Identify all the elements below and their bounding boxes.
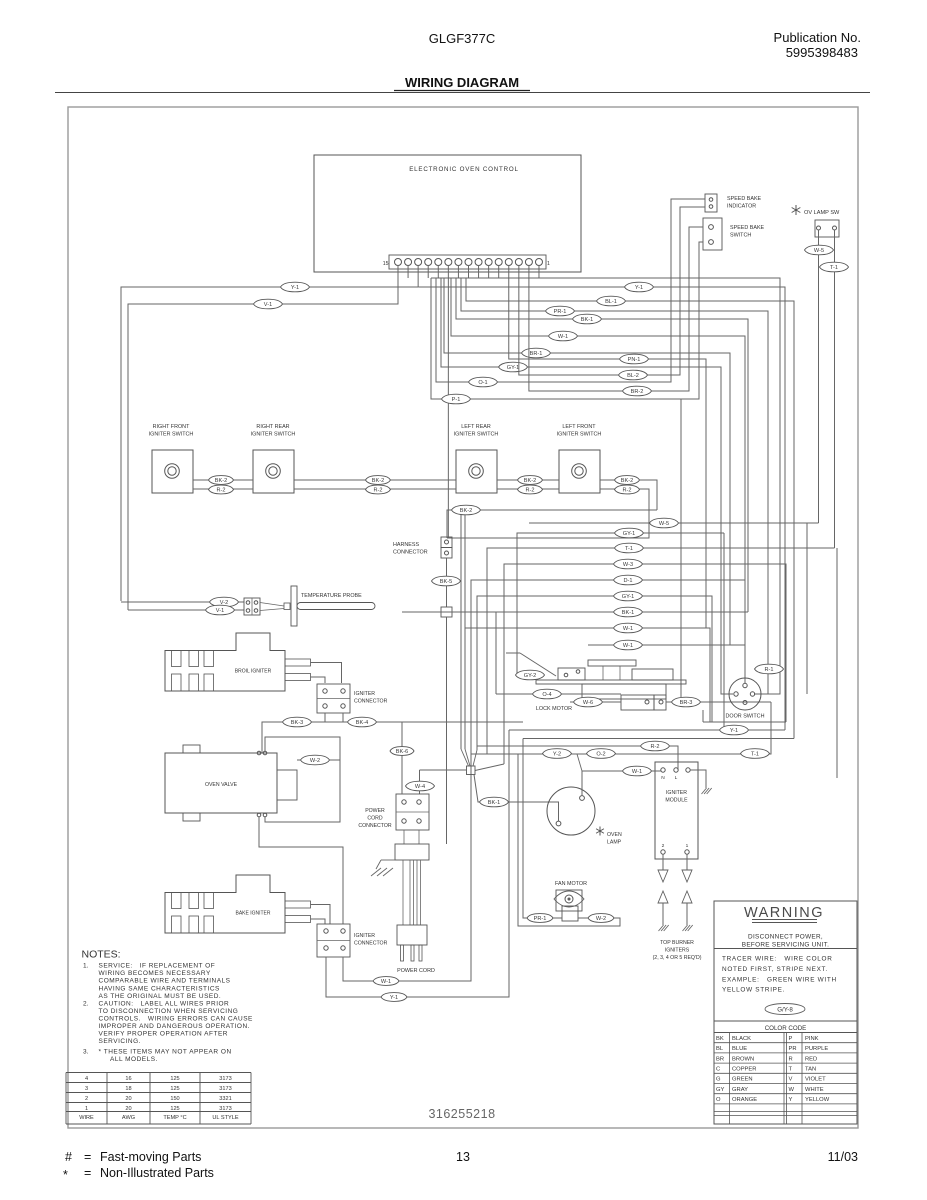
svg-text:DISCONNECT POWER,: DISCONNECT POWER,: [748, 934, 823, 941]
wire from igniter module pin 2: [662, 854, 664, 870]
oven lamp: [547, 787, 595, 835]
svg-text:3: 3: [85, 1086, 88, 1092]
wire label Y-1: [281, 282, 310, 292]
svg-text:11/03: 11/03: [828, 1150, 858, 1164]
wire label W-2 fan: [588, 914, 614, 923]
svg-text:BR-3: BR-3: [680, 700, 693, 706]
oven valve right housing: [277, 770, 297, 800]
svg-text:V-1: V-1: [264, 302, 272, 308]
svg-text:CORD: CORD: [367, 816, 383, 822]
wire label R-2 d: [615, 485, 640, 494]
oven lamp switch OV LAMP SW: [795, 205, 797, 215]
wire from oven valve bottom to bake igniter connector: [259, 817, 343, 924]
svg-text:BEFORE SERVICING UNIT.: BEFORE SERVICING UNIT.: [742, 942, 829, 949]
svg-text:Y-1: Y-1: [730, 728, 738, 734]
wire label BK-5: [432, 576, 461, 586]
wire Y-1 right run: [417, 265, 419, 287]
svg-text:15: 15: [383, 261, 389, 267]
wire BL-1: [466, 278, 794, 739]
wire label PR-1 fan: [527, 914, 553, 923]
wire label Y-1 very bottom: [381, 993, 407, 1002]
wire PR-1: [461, 278, 768, 694]
wire V-1 to temperature probe: [128, 265, 398, 610]
power cord wires: [402, 860, 404, 925]
EOC terminal pin 14: [405, 259, 412, 266]
svg-text:POWER CORD: POWER CORD: [397, 968, 435, 974]
bake igniter: [165, 875, 285, 933]
svg-text:IGNITERS: IGNITERS: [665, 948, 690, 954]
wire label Y-1 right: [625, 282, 654, 292]
svg-text:W-1: W-1: [632, 769, 642, 775]
top burner igniter arrow 1: [682, 870, 692, 882]
wire label O-2 bottom: [587, 749, 616, 759]
svg-text:G: G: [716, 1077, 721, 1083]
svg-text:P-1: P-1: [452, 397, 461, 403]
ground symbol burner 2: [659, 925, 664, 931]
svg-text:OV LAMP SW: OV LAMP SW: [804, 210, 840, 216]
lock motor assembly: [588, 660, 636, 666]
wire W-1: [451, 278, 745, 683]
bake igniter terminal prongs: [285, 901, 311, 908]
wire from igniter module to ground: [690, 770, 706, 788]
svg-text:1: 1: [547, 261, 550, 267]
svg-text:3173: 3173: [219, 1086, 231, 1092]
svg-text:W-5: W-5: [659, 521, 669, 527]
svg-text:YELLOW: YELLOW: [805, 1097, 830, 1103]
svg-text:18: 18: [125, 1086, 131, 1092]
svg-text:BK-1: BK-1: [581, 317, 593, 323]
wire label BR-3: [672, 697, 701, 707]
svg-text:T-1: T-1: [625, 546, 633, 552]
svg-text:RIGHT FRONT: RIGHT FRONT: [153, 424, 190, 430]
wire BK-1 middle run: [402, 611, 748, 613]
wire W-1 to igniter module N: [582, 770, 661, 772]
svg-text:T-1: T-1: [751, 752, 759, 758]
svg-text:T-1: T-1: [830, 265, 838, 271]
wire GY-1: [441, 278, 733, 694]
svg-text:SPEED BAKE: SPEED BAKE: [727, 196, 762, 202]
EOC terminal pin 8: [465, 259, 472, 266]
svg-text:IGNITER SWITCH: IGNITER SWITCH: [251, 432, 296, 438]
svg-text:BLUE: BLUE: [732, 1046, 747, 1052]
EOC terminal pin 2: [525, 259, 532, 266]
svg-text:RED: RED: [805, 1056, 817, 1062]
svg-text:ORANGE: ORANGE: [732, 1097, 757, 1103]
wire label BK-6: [390, 747, 414, 756]
wire P-1 continuation to lock motor area: [680, 399, 682, 702]
svg-text:BK-2: BK-2: [372, 478, 384, 484]
wire label BK-4: [348, 717, 377, 727]
wire label BK-2 e: [452, 505, 481, 515]
wire from oven lamp pin up to W-1 run: [581, 771, 583, 796]
wire label BL-2: [619, 370, 648, 380]
svg-text:W-1: W-1: [623, 626, 633, 632]
svg-text:W-1: W-1: [381, 979, 391, 985]
svg-text:3.: 3.: [83, 1049, 89, 1056]
wire label W-6: [574, 697, 603, 707]
wire label BL-1: [597, 296, 626, 306]
wire W (top) to door switch: [539, 265, 780, 694]
wire label W-5 middle: [650, 518, 679, 528]
wire label V-2 probe: [210, 597, 239, 607]
svg-text:IGNITER: IGNITER: [666, 790, 687, 796]
svg-text:R-2: R-2: [650, 744, 659, 750]
wire O-1 to speed bake indicator: [436, 199, 705, 382]
wire label PR-1: [546, 306, 575, 316]
svg-text:LEFT REAR: LEFT REAR: [461, 424, 491, 430]
wire W-5 drop: [806, 523, 808, 694]
wire from junction down to power cord block: [446, 617, 448, 844]
header rule: [55, 92, 870, 94]
wire GY-1 middle run: [517, 533, 724, 675]
wire W-2 from fan motor: [518, 754, 620, 926]
svg-text:GRAY: GRAY: [732, 1087, 748, 1093]
wire GY-1 middle right drop: [723, 533, 725, 730]
svg-text:BK-3: BK-3: [291, 720, 303, 726]
wire BR-2 to speed bake switch: [529, 227, 703, 391]
svg-text:V-1: V-1: [216, 608, 224, 614]
svg-text:*: *: [63, 1168, 68, 1182]
EOC terminal pin 11: [435, 259, 442, 266]
wire label BK-1: [573, 314, 602, 324]
wire label R-2 c: [518, 485, 543, 494]
svg-text:PR-1: PR-1: [534, 916, 547, 922]
svg-text:PURPLE: PURPLE: [805, 1046, 828, 1052]
wire T-1 drop: [836, 548, 838, 778]
svg-text:PN-1: PN-1: [628, 357, 641, 363]
wire T-1 bottom run: [471, 702, 771, 754]
svg-text:125: 125: [170, 1086, 179, 1092]
wire label BK-1 lamp: [480, 797, 509, 807]
wire label BR-1: [522, 348, 551, 358]
wire W-1 lock motor run: [588, 644, 745, 646]
wire from OV LAMP SW pin 1: [818, 230, 820, 245]
wire label BK-1 middle: [614, 607, 643, 617]
wire loop around oven valve: [265, 737, 340, 822]
svg-text:Non-Illustrated Parts: Non-Illustrated Parts: [100, 1166, 214, 1180]
oven valve: [165, 753, 277, 813]
warning box: [714, 901, 857, 1124]
svg-text:=: =: [84, 1166, 91, 1180]
svg-text:VIOLET: VIOLET: [805, 1077, 826, 1083]
svg-text:TRACER WIRE: WIRE COLOR: TRACER WIRE: WIRE COLOR: [722, 956, 833, 963]
wire BK-3 from broil connector: [324, 713, 326, 722]
svg-text:VERIFY PROPER OPERATION AFTER: VERIFY PROPER OPERATION AFTER: [99, 1031, 228, 1038]
oven valve terminal pins bottom: [257, 813, 261, 817]
svg-text:WHITE: WHITE: [805, 1087, 824, 1093]
wire W-1 bottom: [343, 777, 471, 981]
svg-text:3173: 3173: [219, 1076, 231, 1082]
svg-text:Publication No.: Publication No.: [774, 30, 861, 45]
svg-text:150: 150: [170, 1096, 179, 1102]
svg-text:1: 1: [686, 843, 689, 849]
wire label W-3 middle: [614, 559, 643, 569]
wire label R-2 bottom: [641, 741, 670, 751]
wire W-1 middle run: [465, 628, 710, 722]
svg-text:W-2: W-2: [310, 758, 320, 764]
top burner igniter arrow 2: [658, 870, 668, 882]
svg-text:GLGF377C: GLGF377C: [429, 31, 495, 46]
svg-text:LAMP: LAMP: [607, 840, 622, 846]
EOC terminal pin 13: [415, 259, 422, 266]
wire from broil igniter to connector: [311, 663, 342, 684]
wire label BK-2 a: [209, 476, 234, 485]
ground symbol power cord: [371, 868, 381, 876]
svg-text:W-4: W-4: [415, 784, 425, 790]
ground symbol at igniter module: [702, 788, 707, 794]
wire BK-2 from left front switch: [600, 480, 657, 510]
svg-text:GY: GY: [716, 1087, 725, 1093]
svg-text:GY-1: GY-1: [623, 531, 636, 537]
EOC terminal pin 1: [535, 259, 542, 266]
wire label GY-2: [516, 670, 545, 680]
speed bake switch: [703, 218, 722, 250]
svg-text:HAVING SAME CHARACTERISTICS: HAVING SAME CHARACTERISTICS: [99, 985, 221, 992]
wire label GY-1 middle: [615, 528, 644, 538]
svg-text:BK-2: BK-2: [460, 508, 472, 514]
svg-text:BR: BR: [716, 1056, 724, 1062]
svg-text:BK-1: BK-1: [622, 610, 634, 616]
svg-text:BK-6: BK-6: [396, 749, 408, 755]
wire GY-1 b middle run: [477, 596, 712, 750]
svg-text:4: 4: [85, 1076, 88, 1082]
svg-text:WIRING DIAGRAM: WIRING DIAGRAM: [405, 75, 519, 90]
svg-text:IGNITER: IGNITER: [354, 933, 375, 939]
wire label V-1 probe: [206, 605, 235, 615]
svg-text:HARNESS: HARNESS: [393, 542, 419, 548]
wire label BK-2 c: [518, 476, 543, 485]
EOC terminal pin 4: [505, 259, 512, 266]
wire from junction to power cord connector: [420, 769, 467, 771]
EOC terminal pin 9: [455, 259, 462, 266]
svg-text:RIGHT REAR: RIGHT REAR: [256, 424, 289, 430]
svg-text:R-2: R-2: [216, 488, 225, 494]
svg-text:OVEN VALVE: OVEN VALVE: [205, 782, 238, 788]
diagram border frame: [68, 107, 858, 1128]
svg-text:IGNITER: IGNITER: [354, 691, 375, 697]
svg-text:BK-2: BK-2: [621, 478, 633, 484]
svg-text:BAKE IGNITER: BAKE IGNITER: [235, 911, 270, 917]
svg-text:SERVICE: IF REPLACEMENT OF: SERVICE: IF REPLACEMENT OF: [99, 963, 216, 970]
svg-text:#: #: [65, 1150, 72, 1164]
svg-text:O: O: [716, 1097, 721, 1103]
svg-text:PR: PR: [789, 1046, 797, 1052]
wire BR-1: [444, 278, 730, 645]
svg-text:IGNITER SWITCH: IGNITER SWITCH: [557, 432, 602, 438]
wire label T-1: [820, 262, 849, 272]
wire label GY-1 b middle: [614, 591, 643, 601]
wire label BK-3: [283, 717, 312, 727]
wire to temperature probe upper: [121, 601, 210, 603]
svg-text:1.: 1.: [83, 963, 89, 970]
power cord strain block: [403, 830, 405, 844]
door switch: [729, 678, 761, 710]
svg-text:W: W: [789, 1087, 795, 1093]
svg-text:125: 125: [170, 1076, 179, 1082]
wire BK-2 between igniter switches: [193, 479, 253, 481]
wire BK-1 to oven lamp: [474, 775, 559, 822]
svg-text:* THESE ITEMS MAY NOT APPEAR O: * THESE ITEMS MAY NOT APPEAR ON: [99, 1049, 232, 1056]
svg-text:O-4: O-4: [542, 692, 551, 698]
wire label W-1: [549, 331, 578, 341]
wire jog bus below EOC: [431, 277, 539, 279]
svg-text:AS THE ORIGINAL MUST BE USED.: AS THE ORIGINAL MUST BE USED.: [99, 993, 222, 1000]
EOC terminal strip: [389, 255, 546, 269]
wire R-2 between igniter switches: [193, 488, 253, 490]
svg-text:W-6: W-6: [583, 700, 593, 706]
wire from harness connector down: [446, 558, 448, 607]
svg-text:TEMP °C: TEMP °C: [163, 1115, 186, 1121]
svg-text:CONNECTOR: CONNECTOR: [354, 699, 388, 705]
svg-text:OVEN: OVEN: [607, 832, 622, 838]
svg-text:TO DISCONNECTION WHEN SERVICIN: TO DISCONNECTION WHEN SERVICING: [99, 1008, 239, 1015]
wire Y-1 bottom run: [509, 729, 785, 731]
wire O-4 to lock motor: [496, 693, 621, 695]
wire diagonal to lock motor: [520, 653, 556, 676]
svg-text:125: 125: [170, 1106, 179, 1112]
wire BK-2 to harness connector: [447, 510, 657, 538]
svg-text:SWITCH: SWITCH: [730, 233, 751, 239]
svg-text:BK-1: BK-1: [488, 800, 500, 806]
wire drop from EOC terminal 10 to harness connector: [447, 265, 449, 538]
svg-text:V: V: [789, 1077, 793, 1083]
wire BK-6 to power cord connector: [401, 722, 403, 794]
wire from bake igniter to connector: [311, 905, 331, 925]
wire PR-1 to fan motor: [523, 739, 562, 919]
svg-text:L: L: [675, 775, 678, 781]
electronic oven control box: [314, 155, 581, 272]
wire label V-1: [254, 299, 283, 309]
svg-text:TEMPERATURE PROBE: TEMPERATURE PROBE: [301, 593, 362, 599]
oven valve terminal pins top: [257, 751, 261, 755]
wire PN-1: [509, 265, 706, 628]
svg-text:Y-1: Y-1: [291, 285, 299, 291]
svg-text:BK-2: BK-2: [524, 478, 536, 484]
wire drop from BK-2 run to junction: [460, 510, 462, 749]
svg-text:N: N: [661, 775, 665, 781]
wire label R-1: [755, 664, 784, 674]
svg-text:BK: BK: [716, 1036, 724, 1042]
wire stubs from EOC terminals to jog bus: [407, 265, 409, 278]
svg-text:YELLOW STRIPE.: YELLOW STRIPE.: [722, 987, 785, 994]
svg-text:Y-2: Y-2: [553, 752, 561, 758]
svg-text:EXAMPLE: GREEN WIRE WITH: EXAMPLE: GREEN WIRE WITH: [722, 976, 837, 983]
wire label W-1 middle: [614, 623, 643, 633]
wire from OV LAMP SW pin 2: [834, 230, 836, 262]
wire label R-2 b: [366, 485, 391, 494]
svg-text:R-2: R-2: [525, 488, 534, 494]
svg-text:D-1: D-1: [623, 578, 632, 584]
svg-text:POWER: POWER: [365, 808, 385, 814]
EOC terminal pin 12: [425, 259, 432, 266]
svg-text:W-1: W-1: [623, 643, 633, 649]
wire label Y-2 bottom: [543, 749, 572, 759]
svg-text:GY-1: GY-1: [622, 594, 635, 600]
svg-text:W-3: W-3: [623, 562, 633, 568]
svg-text:NOTES:: NOTES:: [82, 949, 121, 961]
svg-text:IMPROPER AND DANGEROUS OPERATI: IMPROPER AND DANGEROUS OPERATION.: [99, 1023, 250, 1030]
svg-text:Y-1: Y-1: [390, 995, 398, 1001]
EOC terminal pin 5: [495, 259, 502, 266]
svg-text:Y-1: Y-1: [635, 285, 643, 291]
wire O-4 drop: [495, 612, 497, 694]
svg-text:5995398483: 5995398483: [786, 45, 858, 60]
svg-text:BK-2: BK-2: [215, 478, 227, 484]
wire label Y-1 bottom: [720, 725, 749, 735]
svg-text:BK-4: BK-4: [356, 720, 368, 726]
svg-text:BK-5: BK-5: [440, 579, 452, 585]
svg-text:O-1: O-1: [478, 380, 487, 386]
wire label GY-1: [499, 362, 528, 372]
wire R-2 from left front switch: [447, 489, 649, 538]
ground lead from power cord: [381, 859, 395, 861]
EOC terminal pin 10: [445, 259, 452, 266]
wire label W-4 power: [406, 781, 435, 791]
svg-text:1: 1: [85, 1106, 88, 1112]
wire label W-1 module: [623, 766, 652, 776]
power cord lower block: [397, 925, 427, 945]
svg-text:13: 13: [456, 1150, 470, 1164]
svg-text:NOTED FIRST, STRIPE NEXT.: NOTED FIRST, STRIPE NEXT.: [722, 966, 828, 973]
svg-text:20: 20: [125, 1106, 131, 1112]
EOC terminal pin 3: [515, 259, 522, 266]
svg-text:WIRE: WIRE: [79, 1115, 94, 1121]
EOC terminal pin 7: [475, 259, 482, 266]
wire R-2 bottom run: [477, 746, 678, 770]
svg-text:FAN MOTOR: FAN MOTOR: [555, 881, 587, 887]
junction node near oven lamp: [467, 766, 476, 775]
svg-text:UL STYLE: UL STYLE: [212, 1115, 238, 1121]
svg-text:R-1: R-1: [764, 667, 773, 673]
svg-text:3321: 3321: [219, 1096, 231, 1102]
svg-text:R: R: [789, 1056, 793, 1062]
wire label T-1 bottom: [741, 749, 770, 759]
wire BR-3 from lock motor to door switch: [666, 701, 771, 703]
svg-text:BL-2: BL-2: [627, 373, 639, 379]
wire to temperature probe lower: [128, 609, 206, 611]
temperature probe connector: [244, 598, 260, 615]
svg-text:LOCK MOTOR: LOCK MOTOR: [536, 706, 572, 712]
svg-text:2: 2: [662, 843, 665, 849]
wire drop from BK-2 run through W-1 run to junction: [464, 515, 466, 749]
wire middle cross run: [703, 721, 786, 723]
svg-text:W-2: W-2: [596, 916, 606, 922]
svg-text:CONTROLS. WIRING ERRORS CAN: CONTROLS. WIRING ERRORS CAN CAUSE: [99, 1016, 254, 1023]
svg-text:CONNECTOR: CONNECTOR: [393, 550, 428, 556]
svg-text:3173: 3173: [219, 1106, 231, 1112]
wire label W-1 bottom: [373, 977, 399, 986]
wire gauge table: [66, 1072, 251, 1074]
svg-text:GY-2: GY-2: [524, 673, 537, 679]
svg-text:Y: Y: [789, 1097, 793, 1103]
wire label W-5: [805, 245, 834, 255]
speed bake indicator: [705, 194, 717, 212]
svg-text:W-5: W-5: [814, 248, 824, 254]
svg-text:CONNECTOR: CONNECTOR: [358, 823, 392, 829]
svg-text:(2, 3, 4 OR 5 REQ'D): (2, 3, 4 OR 5 REQ'D): [653, 955, 702, 961]
power cord tails: [401, 945, 404, 961]
svg-text:COMPARABLE WIRE AND TERMINALS: COMPARABLE WIRE AND TERMINALS: [99, 978, 231, 985]
svg-text:ELECTRONIC OVEN CONTROL: ELECTRONIC OVEN CONTROL: [409, 166, 519, 173]
svg-text:CAUTION: LABEL ALL WIRES PRI: CAUTION: LABEL ALL WIRES PRIOR: [99, 1001, 230, 1008]
svg-text:BROIL IGNITER: BROIL IGNITER: [235, 669, 272, 675]
svg-text:P: P: [789, 1036, 793, 1042]
igniter module: [655, 762, 698, 859]
svg-text:BLACK: BLACK: [732, 1036, 751, 1042]
svg-text:T: T: [789, 1067, 793, 1073]
wire W-3 middle run: [504, 564, 786, 764]
wire BL-2 to speed bake switch: [519, 207, 705, 375]
